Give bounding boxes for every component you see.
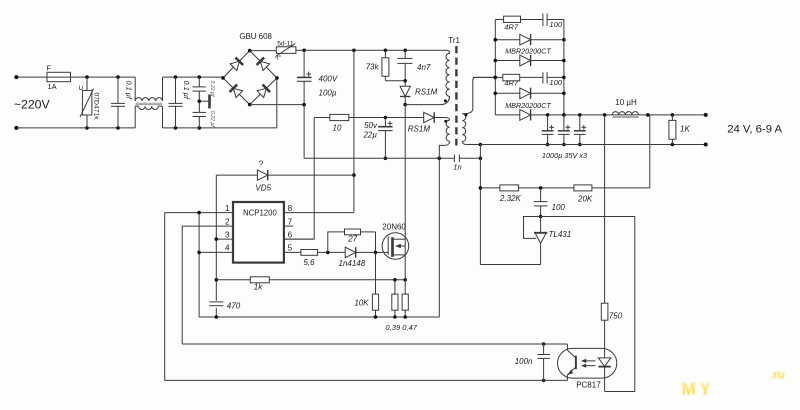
svg-text:4R7: 4R7 [504,78,519,87]
svg-text:~220V: ~220V [14,98,51,112]
svg-text:10 µH: 10 µH [615,98,637,107]
svg-text:5d-11: 5d-11 [277,41,294,48]
svg-text:TL431: TL431 [549,230,572,239]
svg-text:20N60: 20N60 [382,223,406,232]
svg-text:2: 2 [225,217,230,226]
svg-text:3: 3 [225,230,230,239]
svg-text:10K: 10K [354,298,369,307]
svg-text:1A: 1A [48,82,57,91]
svg-text:RS1M: RS1M [415,88,438,97]
svg-text:1n: 1n [453,163,461,172]
svg-text:6: 6 [288,230,293,239]
svg-text:400V: 400V [319,75,338,84]
svg-text:24 V, 6-9 A: 24 V, 6-9 A [727,123,782,135]
svg-text:20K: 20K [577,195,593,204]
svg-text:F: F [47,64,52,73]
svg-text:5: 5 [288,244,293,253]
svg-text:0.22 µf: 0.22 µf [209,111,215,128]
svg-text:MBR20200CT: MBR20200CT [505,101,551,110]
svg-text:.ru: .ru [770,368,785,382]
svg-text:U: U [79,85,84,92]
svg-text:8: 8 [288,204,293,213]
svg-text:10: 10 [333,124,342,133]
svg-text:5,6: 5,6 [304,258,316,267]
svg-text:1: 1 [225,204,230,213]
svg-text:4: 4 [225,244,230,253]
svg-text:0.1 µf: 0.1 µf [125,81,134,100]
svg-text:4R7: 4R7 [504,22,519,31]
svg-text:4n7: 4n7 [417,63,431,72]
svg-text:MBR20200CT: MBR20200CT [505,47,551,56]
svg-text:-t°: -t° [275,54,282,62]
svg-text:VD5: VD5 [255,183,271,192]
svg-text:750: 750 [609,312,623,321]
svg-text:100: 100 [552,203,566,212]
svg-text:7: 7 [288,217,293,226]
svg-text:22µ: 22µ [362,131,377,140]
svg-text:1n4148: 1n4148 [339,259,366,268]
svg-text:27: 27 [347,234,357,243]
svg-text:100µ: 100µ [319,89,337,98]
svg-text:0,39: 0,39 [385,323,401,332]
svg-text:2,32K: 2,32K [499,194,522,203]
svg-text:0,47: 0,47 [402,323,418,332]
svg-text:100n: 100n [515,357,533,366]
svg-text:?: ? [259,160,264,169]
svg-text:1K: 1K [680,125,690,134]
svg-text:1k: 1k [254,283,263,292]
svg-text:PC817: PC817 [576,381,601,390]
svg-text:0.1 µf: 0.1 µf [182,81,191,100]
svg-text:50v: 50v [364,121,378,130]
svg-text:NCP1200: NCP1200 [243,209,277,218]
svg-text:RS1M: RS1M [408,125,431,134]
svg-text:07D471k: 07D471k [93,93,100,121]
svg-text:MY: MY [682,379,715,399]
svg-text:0.22 µf: 0.22 µf [209,81,215,98]
svg-text:73k: 73k [366,63,380,72]
svg-text:100: 100 [549,78,562,87]
svg-text:GBU 608: GBU 608 [239,32,272,41]
svg-text:Tr1: Tr1 [448,36,460,45]
svg-text:470: 470 [227,302,241,311]
svg-text:100: 100 [549,20,562,29]
svg-text:1000µ 35V x3: 1000µ 35V x3 [542,151,587,160]
